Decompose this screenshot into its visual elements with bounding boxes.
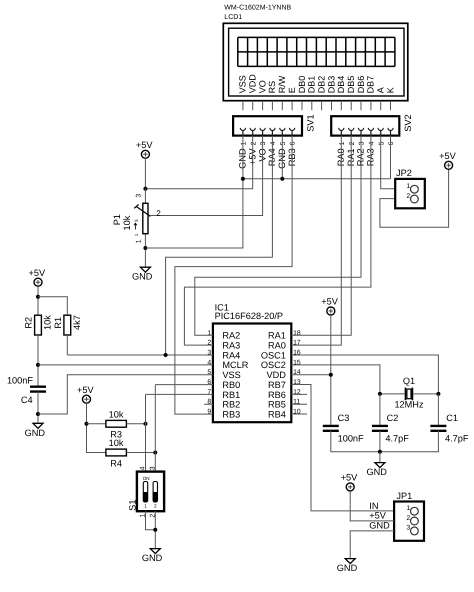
svg-text:OSC2: OSC2 bbox=[261, 360, 286, 370]
svg-text:1: 1 bbox=[339, 141, 346, 145]
svg-text:ON: ON bbox=[143, 476, 150, 481]
wire Q1 left lead bbox=[380, 393, 405, 395]
svg-text:DB0: DB0 bbox=[297, 76, 307, 94]
wire RA2 SV2.3 to IC1 pin 1 bbox=[195, 136, 361, 336]
junction RB1/R3/S1.4 bbox=[144, 422, 148, 426]
wire RB1 vertical to S1 pin 4 bbox=[145, 394, 147, 471]
svg-text:RA4: RA4 bbox=[222, 350, 240, 360]
+5V supply (JP2) bbox=[445, 161, 453, 169]
svg-text:2: 2 bbox=[349, 141, 356, 145]
resistor R3 10k bbox=[106, 420, 127, 427]
C1 bbox=[430, 426, 446, 431]
svg-text:E: E bbox=[287, 87, 297, 93]
svg-text:K: K bbox=[385, 87, 395, 93]
svg-text:Q1: Q1 bbox=[403, 376, 415, 386]
wire +5V/VDD to C3 bbox=[330, 315, 332, 426]
capacitor C4 100nF bbox=[30, 387, 46, 392]
svg-text:1: 1 bbox=[406, 505, 410, 512]
wire GND stub bbox=[379, 452, 381, 463]
wire RA0 SV2.1 to IC1 pin 17 bbox=[291, 136, 341, 346]
svg-text:GND: GND bbox=[142, 553, 163, 563]
junction GND rail at SV1.1 bbox=[241, 177, 245, 181]
junction +5V R3 bbox=[85, 422, 89, 426]
svg-text:3: 3 bbox=[149, 466, 156, 470]
svg-text:JP2: JP2 bbox=[396, 168, 412, 178]
junction VSS/C4 bbox=[36, 412, 40, 416]
LCD module LCD1 WM-C1602M-1YNNB bbox=[223, 4, 407, 100]
svg-text:2: 2 bbox=[406, 193, 410, 200]
svg-text:P1: P1 bbox=[112, 214, 122, 225]
svg-text:3: 3 bbox=[260, 141, 267, 145]
svg-text:RB1: RB1 bbox=[222, 390, 240, 400]
svg-text:2: 2 bbox=[406, 515, 410, 522]
svg-text:RB7: RB7 bbox=[268, 380, 286, 390]
wire JP1 pin 3 to GND bbox=[350, 531, 394, 559]
svg-text:2: 2 bbox=[250, 141, 257, 145]
svg-text:6: 6 bbox=[388, 141, 395, 145]
svg-text:IN: IN bbox=[369, 501, 378, 511]
svg-text:4k7: 4k7 bbox=[72, 315, 82, 330]
svg-text:10k: 10k bbox=[109, 409, 124, 419]
wire S1 pin 1 to GND bbox=[146, 511, 156, 530]
wire RA1 SV2.2 to IC1 pin 18 bbox=[291, 136, 351, 336]
wire +5V to R3 bbox=[87, 423, 106, 425]
junction MCLR bbox=[36, 363, 40, 367]
svg-text:1: 1 bbox=[134, 233, 139, 236]
wire SV2 pin 6 to GND rail bbox=[390, 136, 392, 179]
C3 bbox=[323, 426, 339, 431]
svg-text:4: 4 bbox=[369, 141, 376, 145]
crystal Q1 12MHz bbox=[394, 376, 424, 410]
svg-text:RA2: RA2 bbox=[222, 331, 240, 341]
ground (C4) bbox=[33, 423, 43, 428]
connector JP2 bbox=[395, 168, 425, 208]
svg-text:GND: GND bbox=[25, 428, 46, 438]
svg-text:R1: R1 bbox=[53, 317, 63, 329]
junction +5V R1/R2 bbox=[36, 295, 40, 299]
junction OSC2/Q1/C2 bbox=[378, 392, 382, 396]
svg-text:100nF: 100nF bbox=[338, 434, 364, 444]
svg-text:VO: VO bbox=[257, 80, 267, 93]
svg-text:10k: 10k bbox=[43, 315, 53, 330]
svg-text:+5V: +5V bbox=[369, 511, 386, 521]
wire R2 to C4/MCLR bbox=[37, 335, 39, 387]
wire +5V to R4 bbox=[87, 403, 106, 452]
wire P1 to GND bbox=[144, 248, 146, 267]
svg-text:C3: C3 bbox=[338, 413, 350, 423]
svg-text:RB0: RB0 bbox=[222, 380, 240, 390]
svg-text:3: 3 bbox=[359, 141, 366, 145]
wire S1 pin 2 to GND bbox=[154, 511, 156, 548]
op-amp / microcontroller IC1 PIC16F628-20/P bbox=[207, 302, 300, 422]
svg-text:3: 3 bbox=[406, 525, 410, 532]
svg-text:R/W: R/W bbox=[277, 75, 287, 93]
wire JP2 pin 2 to +5V bbox=[380, 169, 449, 227]
svg-text:DB6: DB6 bbox=[356, 76, 366, 94]
svg-text:1: 1 bbox=[241, 141, 248, 145]
svg-text:5: 5 bbox=[378, 141, 385, 145]
connector SV2 bbox=[331, 114, 413, 166]
svg-text:5: 5 bbox=[280, 141, 287, 145]
wire MCLR to IC1 pin 4 bbox=[38, 364, 213, 366]
wire R1 to RA4 line bbox=[66, 335, 68, 355]
wire C4 to GND bbox=[37, 392, 39, 424]
IC1 pin stubs: pin 8 (RB2) n/c, pins 10-12 (RB4-RB6) n/c bbox=[204, 394, 307, 414]
svg-text:1: 1 bbox=[144, 503, 147, 509]
+5V supply (JP1) bbox=[346, 483, 354, 491]
wire RA3 SV2.4 to IC1 pin 2 bbox=[184, 136, 371, 346]
wire RB1 to IC1 pin 7 bbox=[146, 393, 213, 395]
wire RA4 line R1 to IC1 pin 3 bbox=[67, 354, 213, 356]
wire OSC1 IC1 pin 16 bbox=[291, 355, 438, 394]
svg-text:GND: GND bbox=[132, 272, 153, 282]
+5V supply (VDD) bbox=[327, 307, 335, 315]
wire GND rail SV1.1-SV1.5-SV2.6 bbox=[243, 178, 391, 180]
wire SV1 pin 5 to GND rail bbox=[281, 136, 283, 179]
ground (JP1) bbox=[345, 559, 355, 564]
svg-text:4.7pF: 4.7pF bbox=[385, 434, 409, 444]
svg-text:+5V: +5V bbox=[439, 151, 456, 161]
connector JP1 bbox=[394, 491, 424, 541]
svg-text:C2: C2 bbox=[387, 413, 399, 423]
svg-text:10k: 10k bbox=[109, 438, 124, 448]
wire C2 to GND rail bbox=[379, 431, 381, 452]
junction RB0/R4/S1.3 bbox=[153, 451, 157, 455]
svg-text:4.7pF: 4.7pF bbox=[445, 434, 469, 444]
wire +5V to JP1 pin 2 bbox=[350, 491, 394, 521]
svg-text:12MHz: 12MHz bbox=[394, 400, 424, 410]
svg-text:3: 3 bbox=[134, 219, 139, 222]
LCD pin labels and stubs bbox=[238, 74, 396, 111]
C2 bbox=[372, 426, 388, 431]
wire VO SV1.3 to P1 wiper bbox=[151, 136, 263, 216]
svg-text:DB4: DB4 bbox=[336, 76, 346, 94]
wire SV2.5 to JP2 pin 1 bbox=[381, 136, 396, 189]
svg-text:RB2: RB2 bbox=[222, 400, 240, 410]
ground (oscillator) bbox=[375, 463, 385, 468]
svg-text:MCLR: MCLR bbox=[222, 360, 248, 370]
wire to C1 bbox=[437, 394, 439, 426]
+5V supply (R3 R4) bbox=[83, 395, 91, 403]
svg-text:RB5: RB5 bbox=[268, 400, 286, 410]
wire +5V to R1 bbox=[38, 297, 67, 316]
wire VSS IC1 pin 5 to GND bbox=[38, 375, 213, 414]
svg-text:GND: GND bbox=[337, 563, 358, 573]
svg-text:PIC16F628-20/P: PIC16F628-20/P bbox=[215, 311, 283, 321]
svg-text:SV2: SV2 bbox=[403, 114, 413, 131]
ground (P1) bbox=[140, 267, 150, 272]
svg-text:3: 3 bbox=[136, 194, 143, 198]
svg-text:R2: R2 bbox=[24, 317, 34, 329]
svg-text:+5V: +5V bbox=[28, 268, 45, 278]
svg-text:RS: RS bbox=[267, 81, 277, 94]
svg-text:VDD: VDD bbox=[248, 74, 258, 94]
+5V supply (R1 R2) bbox=[34, 278, 42, 286]
wire Q1 right lead bbox=[413, 393, 438, 395]
junction S1 GND bbox=[153, 528, 157, 532]
svg-text:+5V: +5V bbox=[321, 297, 338, 307]
wire to C2 bbox=[379, 394, 381, 426]
svg-text:1: 1 bbox=[136, 239, 143, 243]
resistor R2 10k bbox=[35, 315, 42, 335]
svg-text:OSC1: OSC1 bbox=[261, 350, 286, 360]
wire +5V to P1 rail bbox=[144, 158, 146, 189]
svg-text:+5V: +5V bbox=[136, 140, 153, 150]
svg-text:SV1: SV1 bbox=[306, 114, 316, 131]
resistor R1 4k7 bbox=[64, 315, 71, 335]
svg-text:RA3: RA3 bbox=[222, 341, 240, 351]
wire RB0 vertical to S1 pin 3 bbox=[154, 385, 156, 472]
svg-text:DB3: DB3 bbox=[326, 76, 336, 94]
svg-text:JP1: JP1 bbox=[396, 491, 412, 501]
svg-text:DB1: DB1 bbox=[307, 76, 317, 94]
svg-text:10k: 10k bbox=[122, 215, 132, 230]
wire RB3 SV1.6 to IC1 pin 9 bbox=[175, 136, 292, 415]
connector SV1 bbox=[233, 114, 315, 168]
svg-text:DB2: DB2 bbox=[316, 76, 326, 94]
svg-text:4: 4 bbox=[270, 141, 277, 145]
+5V supply (P1) bbox=[141, 150, 149, 158]
wire OSC2 IC1 pin 15 bbox=[291, 365, 380, 394]
svg-text:GND: GND bbox=[369, 521, 390, 531]
wire RB7 IC1 pin 13 to JP1 IN bbox=[291, 385, 394, 511]
svg-text:RB3: RB3 bbox=[222, 409, 240, 419]
svg-text:RA0: RA0 bbox=[268, 341, 286, 351]
svg-text:S1: S1 bbox=[128, 500, 138, 511]
wire GND net P1 to SV1 pin 1 bbox=[145, 136, 243, 248]
wire +5V to R2 bbox=[37, 286, 39, 315]
svg-text:WM-C1602M-1YNNB: WM-C1602M-1YNNB bbox=[224, 4, 291, 11]
wire caps GND rail bbox=[331, 431, 439, 452]
svg-text:RA1: RA1 bbox=[268, 331, 286, 341]
svg-text:2: 2 bbox=[156, 209, 161, 218]
junction P1.1/GND net bbox=[143, 246, 147, 250]
svg-text:RB6: RB6 bbox=[268, 390, 286, 400]
svg-text:DB7: DB7 bbox=[366, 76, 376, 94]
wire R3 to RB1 net bbox=[126, 423, 145, 425]
svg-text:+5V: +5V bbox=[77, 385, 94, 395]
svg-text:RB4: RB4 bbox=[268, 409, 286, 419]
svg-text:6: 6 bbox=[290, 141, 297, 145]
junction OSC1/Q1/C1 bbox=[436, 392, 440, 396]
wire P1 pin 1 stub bbox=[144, 234, 146, 248]
svg-text:100nF: 100nF bbox=[7, 376, 33, 386]
svg-text:A: A bbox=[376, 87, 386, 93]
svg-text:DB5: DB5 bbox=[346, 76, 356, 94]
svg-text:LCD1: LCD1 bbox=[224, 14, 242, 21]
ground (S1) bbox=[150, 549, 160, 554]
svg-text:VSS: VSS bbox=[222, 370, 240, 380]
wire VDD IC1 pin 14 bbox=[291, 374, 331, 376]
svg-text:4: 4 bbox=[140, 466, 147, 470]
potentiometer P1 10k bbox=[112, 194, 161, 244]
svg-text:1: 1 bbox=[406, 183, 410, 190]
switch S1 (DIP-2) bbox=[128, 466, 164, 517]
wire RA4 SV1.4 route bbox=[166, 136, 273, 355]
svg-text:2: 2 bbox=[154, 503, 157, 509]
svg-text:C1: C1 bbox=[446, 413, 458, 423]
wire R4 to RB0 net bbox=[126, 452, 155, 454]
svg-text:VSS: VSS bbox=[238, 75, 248, 93]
junction GND rail at SV1.5 bbox=[280, 177, 284, 181]
svg-text:+5V: +5V bbox=[341, 473, 358, 483]
wire +5V rail to SV1 pin 2 bbox=[145, 136, 252, 189]
svg-text:VDD: VDD bbox=[266, 370, 286, 380]
junction VDD bbox=[329, 373, 333, 377]
svg-text:GND: GND bbox=[366, 467, 387, 477]
junction RA4 bbox=[164, 353, 168, 357]
resistor R4 10k bbox=[106, 449, 127, 456]
junction +5V/P1.3 bbox=[143, 187, 147, 191]
svg-text:C4: C4 bbox=[21, 395, 33, 405]
junction GND rail bbox=[378, 450, 382, 454]
svg-text:R4: R4 bbox=[110, 458, 122, 468]
wire P1 pin 3 stub bbox=[144, 189, 146, 204]
wire RB0 to IC1 pin 6 bbox=[155, 384, 213, 386]
